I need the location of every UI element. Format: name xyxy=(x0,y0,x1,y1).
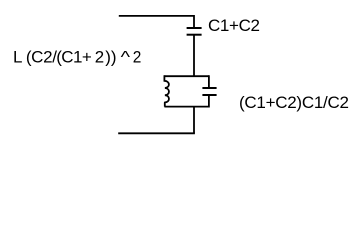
svg-text:C1+C2: C1+C2 xyxy=(208,16,260,35)
capacitor C1+C2 xyxy=(187,28,202,35)
inductor L (tank left branch) xyxy=(164,75,169,106)
wire bottom horizontal xyxy=(118,132,195,134)
wire from C1+C2 down to tank xyxy=(193,35,195,76)
capacitor (tank right branch) plates xyxy=(202,88,216,95)
wire tank bottom to lower rail xyxy=(193,107,195,134)
wire tank bottom rail xyxy=(164,106,209,108)
wire tank top rail xyxy=(164,75,209,77)
capacitor (tank right branch) top lead xyxy=(208,75,210,88)
svg-text:(C1+C2)C1/C2: (C1+C2)C1/C2 xyxy=(239,93,349,112)
capacitor (tank right branch) bottom lead xyxy=(208,95,210,108)
wire top horizontal xyxy=(119,15,194,17)
wire top vertical into C1+C2 xyxy=(193,15,195,28)
svg-text:L (C2/(C1+2))^2: L (C2/(C1+2))^2 xyxy=(13,47,141,66)
